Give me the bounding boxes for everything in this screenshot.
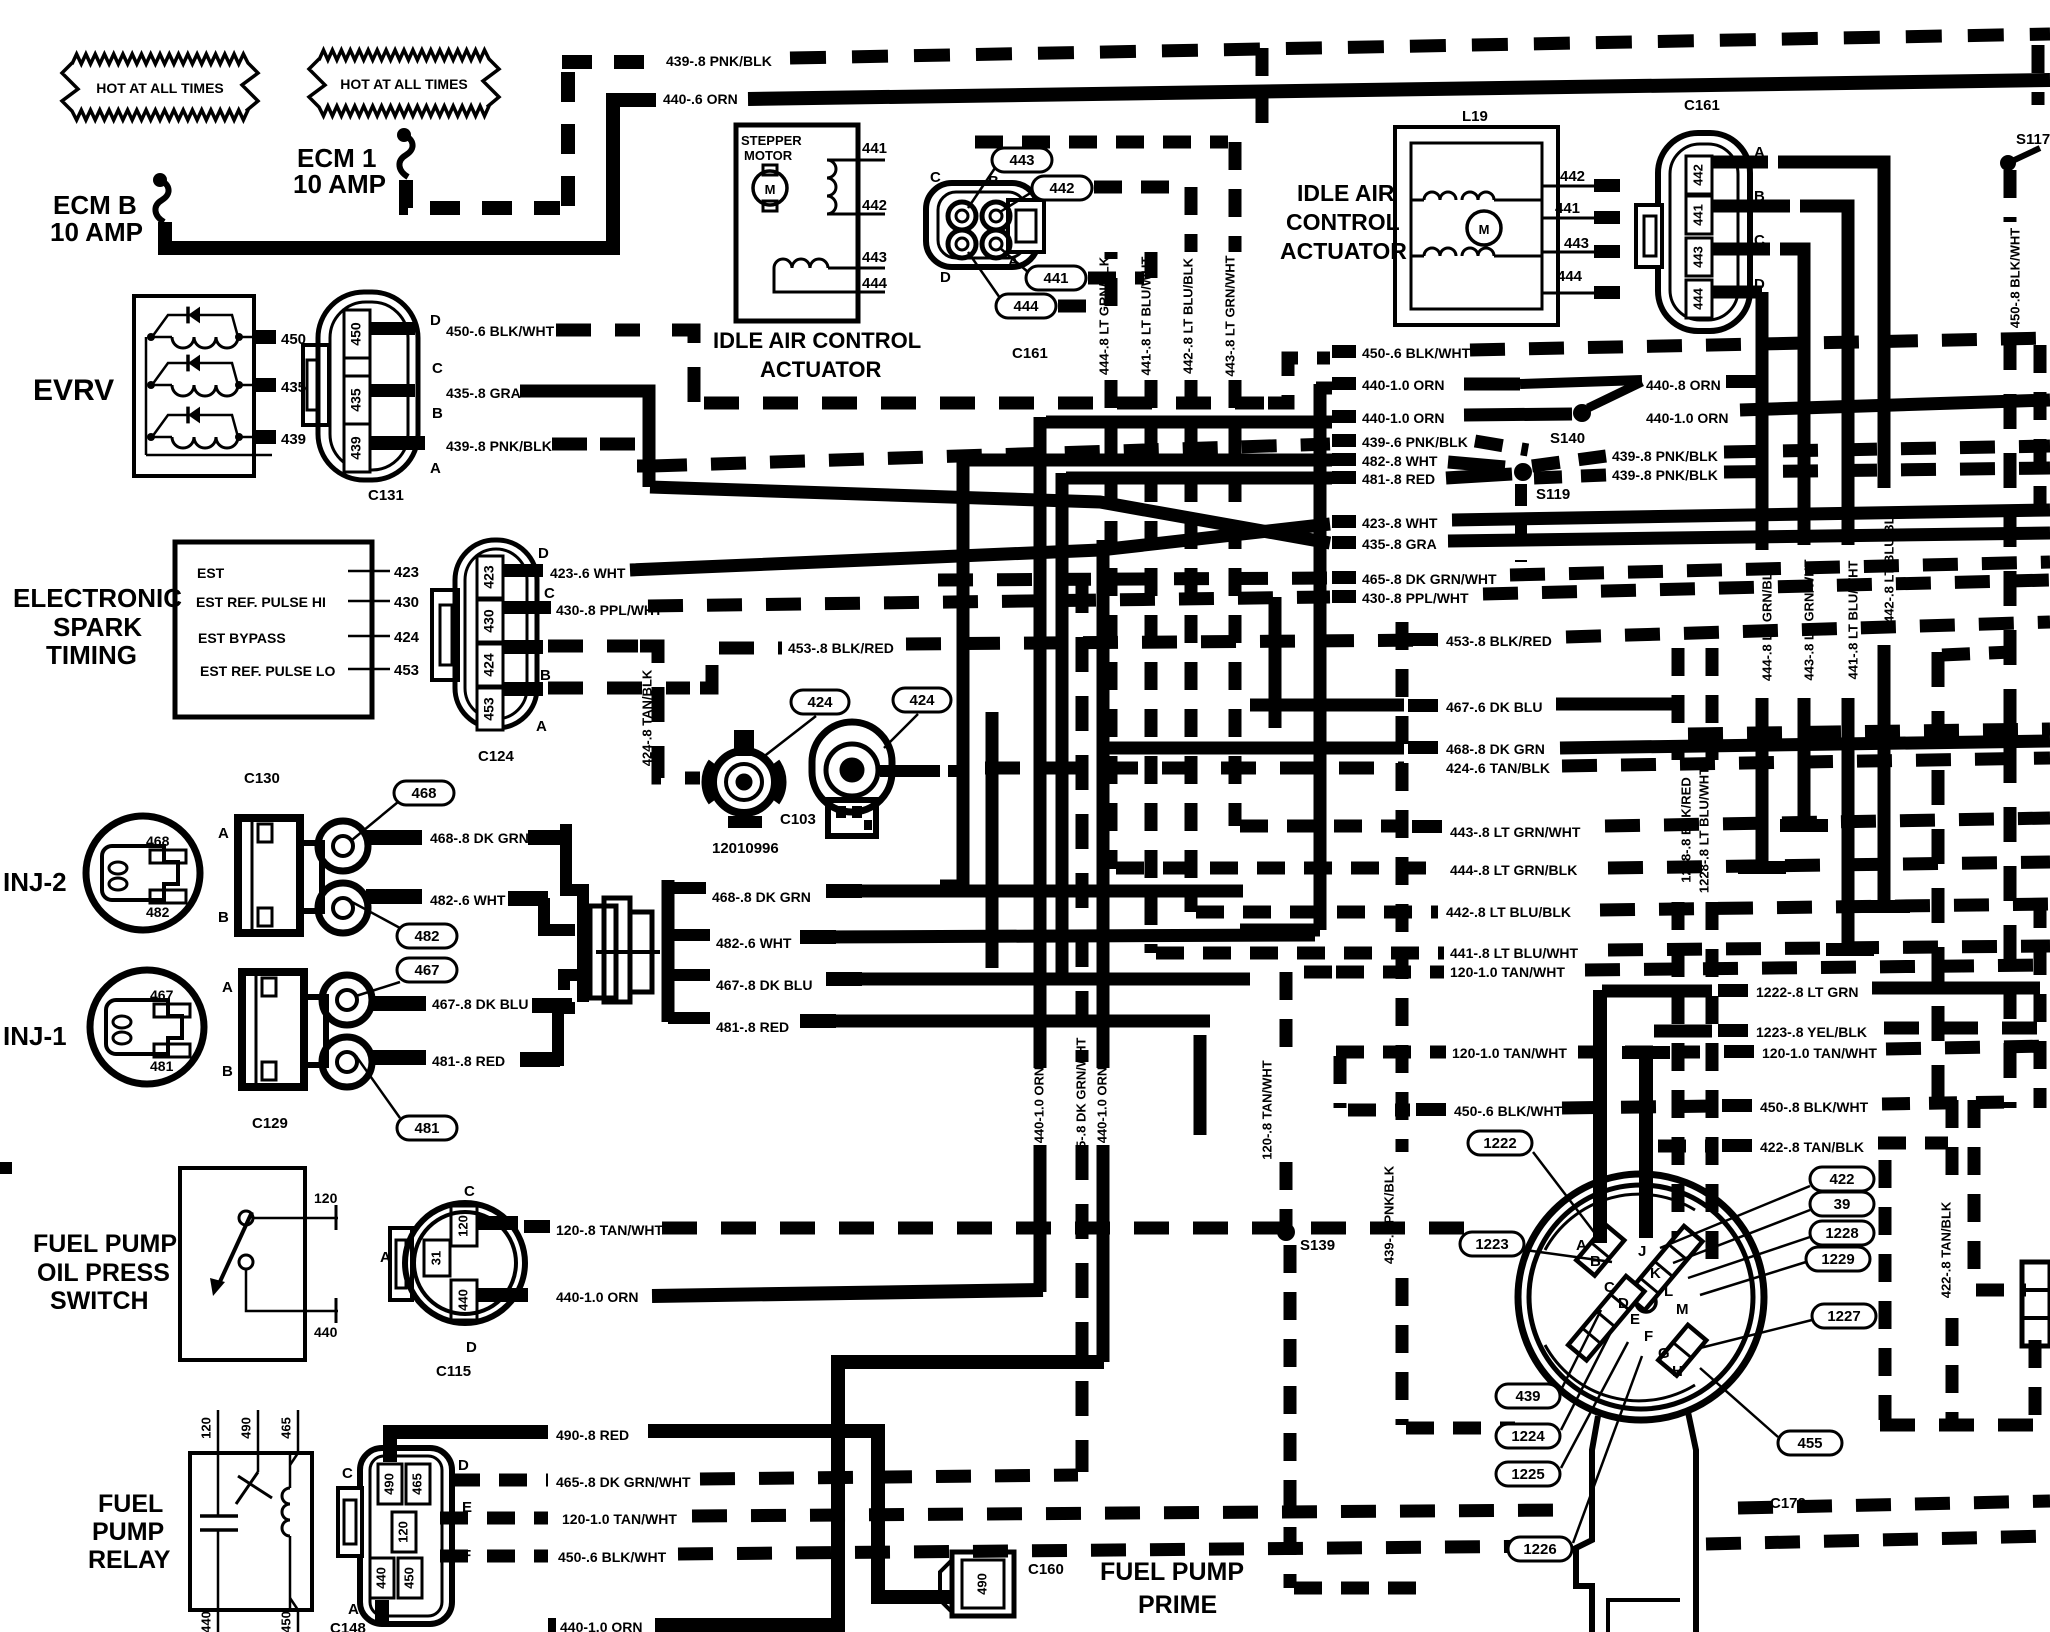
callout oval 468	[394, 781, 454, 805]
wire 422-.8 TAN/BLK vertical (dashed)	[1946, 1100, 1959, 1185]
relay pin 450	[297, 1610, 300, 1632]
svg-text:A: A	[430, 460, 441, 477]
svg-text:444-.8 LT GRN/BLK: 444-.8 LT GRN/BLK	[1759, 562, 1774, 681]
svg-text:D: D	[466, 1339, 477, 1356]
wire riser to top 439 run (dashed)	[1256, 48, 1269, 140]
svg-text:439-.8 PNK/BLK: 439-.8 PNK/BLK	[446, 438, 552, 454]
svg-text:1224: 1224	[1511, 1428, 1545, 1445]
svg-text:EST BYPASS: EST BYPASS	[198, 630, 286, 646]
svg-text:10 AMP: 10 AMP	[50, 217, 143, 247]
pin 424 EST	[348, 635, 390, 638]
svg-text:1223: 1223	[1475, 1236, 1508, 1253]
svg-text:442-.8 LT BLU/BLK: 442-.8 LT BLU/BLK	[1446, 904, 1571, 920]
wire 441-.8 LT BLU/WHT from C161R-B (solid vertical)	[1712, 200, 1790, 213]
svg-text:439-.8 PNK/BLK: 439-.8 PNK/BLK	[1612, 448, 1718, 464]
wire right side dashed near C172	[1879, 1160, 1892, 1420]
wire solid vertical into C172 pin J	[1639, 1052, 1653, 1238]
wire 120-.8 TAN/WHT from C115	[478, 1216, 518, 1230]
splice S119	[1514, 463, 1532, 481]
svg-text:482-.8 WHT: 482-.8 WHT	[1362, 453, 1438, 469]
svg-text:468-.8 DK GRN: 468-.8 DK GRN	[430, 830, 529, 846]
svg-text:430-.8 PPL/WHT: 430-.8 PPL/WHT	[1362, 590, 1469, 606]
callout oval 482	[397, 924, 457, 948]
svg-text:467-.8 DK BLU: 467-.8 DK BLU	[716, 977, 812, 993]
svg-text:RELAY: RELAY	[88, 1546, 171, 1574]
svg-text:468-.8 DK GRN: 468-.8 DK GRN	[1446, 741, 1545, 757]
svg-text:1228-.8 LT BLU/WHT: 1228-.8 LT BLU/WHT	[1696, 767, 1711, 893]
svg-text:443: 443	[1690, 246, 1705, 268]
connector C172 distributor	[1518, 1174, 1764, 1420]
svg-text:422-.8 TAN/BLK: 422-.8 TAN/BLK	[1760, 1139, 1864, 1155]
svg-text:450: 450	[278, 1611, 293, 1632]
wire 439-.8 PNK/BLK from C131-A (dashed)	[370, 436, 425, 450]
wire 450-.6 BLK/WHT from C131-D (dashed)	[370, 322, 415, 335]
svg-text:HOT AT ALL TIMES: HOT AT ALL TIMES	[96, 80, 224, 96]
wire 467-.8 DK BLU label	[370, 996, 426, 1011]
svg-text:444-.8 LT GRN/BLK: 444-.8 LT GRN/BLK	[1450, 862, 1577, 878]
svg-text:L: L	[1664, 1283, 1673, 1300]
svg-text:424: 424	[394, 629, 420, 646]
svg-text:453: 453	[394, 662, 419, 679]
svg-text:482-.6 WHT: 482-.6 WHT	[716, 935, 792, 951]
wire 482-.8 WHT (center row)	[1332, 453, 1356, 466]
svg-text:465-.8 DK GRN/WHT: 465-.8 DK GRN/WHT	[556, 1474, 691, 1490]
callout oval 443 (C161)	[992, 148, 1052, 172]
pin 453 EST	[348, 668, 390, 671]
svg-text:PUMP: PUMP	[92, 1518, 164, 1546]
pin 430 EST	[348, 600, 390, 603]
svg-text:B: B	[432, 405, 443, 422]
callout oval 442 (C161)	[1032, 176, 1092, 200]
wire EVRV internal bus	[145, 337, 148, 455]
wire 440-1.0 ORN (bottom)	[375, 1600, 389, 1626]
svg-text:PRIME: PRIME	[1138, 1591, 1217, 1619]
relay pin 465	[297, 1410, 300, 1453]
svg-text:C: C	[432, 360, 443, 377]
svg-text:D: D	[538, 545, 549, 562]
wire ECM 1 to 439 PNK/BLK (dashed)	[406, 180, 560, 208]
wire dashed frame lower-left of C172	[1284, 1245, 1297, 1588]
svg-text:C129: C129	[252, 1115, 288, 1132]
wire 450-.6 BLK/WHT (center row)	[1332, 345, 1356, 358]
connector C160	[940, 1560, 952, 1612]
svg-text:120: 120	[198, 1417, 213, 1439]
component IDLE AIR CONTROL ACTUATOR (stepper motor)	[736, 125, 858, 321]
svg-text:490-.8 RED: 490-.8 RED	[556, 1427, 629, 1443]
svg-text:435-.8 GRA: 435-.8 GRA	[1362, 536, 1437, 552]
svg-text:120-1.0 TAN/WHT: 120-1.0 TAN/WHT	[562, 1511, 677, 1527]
svg-text:B: B	[222, 1063, 233, 1080]
wire 435-.8 GRA (center row)	[1332, 536, 1356, 549]
svg-text:424-.6 TAN/BLK: 424-.6 TAN/BLK	[1446, 760, 1550, 776]
svg-text:465-.8 DK GRN/WHT: 465-.8 DK GRN/WHT	[1073, 1037, 1088, 1162]
wire 450-.8 BLK/WHT from S117 (dashed vertical)	[2004, 170, 2017, 222]
svg-text:423: 423	[481, 565, 497, 589]
svg-text:C160: C160	[1028, 1561, 1064, 1578]
svg-text:440-1.0 ORN: 440-1.0 ORN	[1362, 410, 1444, 426]
svg-text:B: B	[540, 667, 551, 684]
svg-text:120: 120	[395, 1521, 410, 1543]
svg-text:490: 490	[238, 1417, 253, 1439]
svg-text:435: 435	[348, 388, 364, 412]
wire C103 output stub	[880, 765, 940, 777]
switch contacts	[239, 1211, 253, 1225]
svg-text:440-1.0 ORN: 440-1.0 ORN	[1646, 410, 1728, 426]
relay switch blade	[257, 1453, 260, 1472]
svg-text:444: 444	[1690, 287, 1705, 309]
svg-text:444: 444	[862, 275, 888, 292]
motor M (L19)	[1467, 211, 1501, 245]
svg-text:440: 440	[198, 1611, 213, 1632]
svg-text:F: F	[1644, 1328, 1653, 1345]
svg-text:CONTROL: CONTROL	[1286, 209, 1400, 235]
svg-text:481: 481	[150, 1058, 174, 1074]
svg-text:1228: 1228	[1825, 1225, 1858, 1242]
C172 pin strip A-B	[1576, 1225, 1624, 1276]
wire 468 to inline connector	[560, 830, 583, 930]
pin 450 EVRV	[252, 330, 276, 344]
svg-text:SPARK: SPARK	[53, 612, 142, 642]
svg-text:422: 422	[1829, 1171, 1854, 1188]
svg-text:C115: C115	[436, 1363, 471, 1380]
svg-text:C130: C130	[244, 770, 280, 787]
svg-text:ELECTRONIC: ELECTRONIC	[13, 583, 182, 613]
svg-text:455: 455	[1797, 1435, 1822, 1452]
svg-text:A: A	[218, 825, 229, 842]
wire 482-.6 WHT label	[366, 889, 422, 904]
svg-text:481-.8 RED: 481-.8 RED	[716, 1019, 789, 1035]
wire 465-.8 DK GRN/WHT (bottom)	[452, 1474, 548, 1487]
svg-text:450-.6 BLK/WHT: 450-.6 BLK/WHT	[558, 1549, 667, 1565]
wire 120-1.0 TAN/WHT (row y1052 right label)	[1724, 1045, 1754, 1058]
svg-text:120-1.0 TAN/WHT: 120-1.0 TAN/WHT	[1762, 1045, 1877, 1061]
C172 pin strip G-H	[1658, 1325, 1706, 1376]
svg-text:C: C	[930, 169, 941, 186]
svg-text:A: A	[348, 1601, 359, 1618]
svg-text:39: 39	[1834, 1196, 1851, 1213]
callout oval 1226	[1508, 1537, 1572, 1561]
svg-text:IDLE AIR CONTROL: IDLE AIR CONTROL	[713, 328, 921, 353]
inline connector output bus	[662, 880, 675, 1022]
svg-text:EVRV: EVRV	[33, 374, 114, 407]
wire 468-.8 DK GRN label	[366, 830, 422, 845]
svg-text:A: A	[222, 979, 233, 996]
wire 120-.8 TAN/WHT long run (dashed)	[662, 1222, 1480, 1235]
svg-text:444-.8 LT GRN/BLK: 444-.8 LT GRN/BLK	[1096, 256, 1111, 375]
wire 481 feeder vertical	[1056, 473, 1069, 980]
wire 443-.8 LT GRN/WHT (center row)	[1412, 820, 1442, 833]
sensor 12010996 pickup coil	[762, 716, 816, 758]
coil 441/442 (stepper)	[827, 160, 836, 214]
wire 440-1.0 ORN (center row upper)	[1332, 377, 1356, 390]
connector C148	[360, 1448, 452, 1624]
callout oval 481	[397, 1116, 457, 1140]
svg-text:424: 424	[909, 692, 935, 709]
svg-text:423-.6 WHT: 423-.6 WHT	[550, 565, 626, 581]
svg-text:441: 441	[862, 140, 887, 157]
splice S139	[1277, 1223, 1295, 1241]
svg-text:442: 442	[1049, 180, 1074, 197]
svg-text:422-.8 TAN/BLK: 422-.8 TAN/BLK	[1938, 1201, 1953, 1298]
svg-text:H: H	[1672, 1363, 1683, 1380]
svg-text:120-1.0 TAN/WHT: 120-1.0 TAN/WHT	[1452, 1045, 1567, 1061]
wire 440 riser x1320	[1314, 384, 1327, 930]
wire 423-.8 WHT (center row)	[1332, 515, 1356, 528]
svg-text:450-.8 BLK/WHT: 450-.8 BLK/WHT	[2007, 228, 2022, 328]
svg-text:1227: 1227	[1827, 1308, 1860, 1325]
svg-text:444: 444	[1013, 298, 1039, 315]
svg-text:444: 444	[1557, 268, 1583, 285]
svg-text:E: E	[1630, 1311, 1640, 1328]
connector C161 (engine side)	[926, 183, 1038, 267]
pin 439 EVRV	[252, 430, 276, 444]
callout oval 422	[1810, 1167, 1874, 1191]
callout oval 444 (C161)	[996, 294, 1056, 318]
wire 450-.6 BLK/WHT (row y1110 left label)	[1416, 1103, 1446, 1116]
svg-text:441-.8 LT BLU/WHT: 441-.8 LT BLU/WHT	[1450, 945, 1579, 961]
wire vertical bus solid A (482 feeder)	[957, 455, 970, 886]
svg-text:450-.6 BLK/WHT: 450-.6 BLK/WHT	[1362, 345, 1471, 361]
svg-text:442-.8 LT BLU/BLK: 442-.8 LT BLU/BLK	[1180, 257, 1195, 374]
wire 435-.8 GRA from C131-B (solid)	[370, 384, 415, 397]
wire 439-.8 PNK/BLK lower (right)	[1534, 475, 1606, 478]
callout oval 1228	[1810, 1221, 1874, 1245]
wire 423-.6 WHT from C124-D (solid)	[503, 564, 543, 577]
svg-text:490: 490	[381, 1473, 396, 1495]
svg-text:439-.6 PNK/BLK: 439-.6 PNK/BLK	[1362, 434, 1468, 450]
wire 120-.8 TAN/WHT vertical (dashed)	[1286, 966, 1332, 979]
svg-text:FUEL PUMP: FUEL PUMP	[33, 1230, 177, 1258]
svg-text:481: 481	[414, 1120, 439, 1137]
callout oval 39	[1810, 1192, 1874, 1216]
svg-text:D: D	[940, 269, 951, 286]
svg-text:C124: C124	[478, 748, 515, 765]
wire 120-1.0 TAN/WHT (bottom)	[440, 1512, 548, 1525]
svg-text:M: M	[765, 182, 776, 197]
wire 440-1.0 ORN from C115	[478, 1288, 528, 1302]
wire 481-.8 RED (center row)	[1332, 471, 1356, 484]
wire vertical bus solid B	[986, 712, 999, 968]
svg-text:439: 439	[281, 431, 306, 448]
wire 422-.8 TAN/BLK (row y1146)	[1658, 1140, 1716, 1153]
svg-text:430: 430	[481, 609, 497, 633]
wire solid vertical into C172 pin A	[1593, 990, 1607, 1243]
svg-text:442: 442	[1690, 164, 1705, 186]
svg-text:1225: 1225	[1511, 1466, 1544, 1483]
connector C131	[318, 292, 418, 480]
svg-text:120: 120	[455, 1215, 470, 1237]
svg-text:435-.8 GRA: 435-.8 GRA	[446, 385, 521, 401]
svg-text:440-1.0 ORN: 440-1.0 ORN	[1094, 1067, 1109, 1144]
svg-text:467-.8 DK BLU: 467-.8 DK BLU	[432, 996, 528, 1012]
svg-text:TIMING: TIMING	[46, 640, 137, 670]
svg-text:450: 450	[401, 1567, 416, 1589]
svg-text:C: C	[1604, 1279, 1615, 1296]
svg-text:INJ-1: INJ-1	[3, 1021, 67, 1051]
svg-text:443-.8 LT GRN/WHT: 443-.8 LT GRN/WHT	[1801, 559, 1816, 680]
svg-text:MOTOR: MOTOR	[744, 148, 793, 163]
svg-text:B: B	[218, 909, 229, 926]
svg-text:482: 482	[146, 904, 170, 920]
svg-text:1223-.8 YEL/BLK: 1223-.8 YEL/BLK	[1756, 1024, 1867, 1040]
svg-text:467: 467	[150, 987, 174, 1003]
svg-text:442: 442	[862, 197, 887, 214]
svg-text:443: 443	[862, 249, 887, 266]
svg-text:440-1.0 ORN: 440-1.0 ORN	[560, 1619, 642, 1632]
wire 482 to inline connector	[544, 898, 575, 930]
wire 453-.8 BLK/RED (center row)	[1408, 633, 1438, 646]
svg-text:A: A	[1576, 1237, 1587, 1254]
svg-text:12010996: 12010996	[712, 840, 779, 857]
relay capacitor	[217, 1453, 220, 1516]
svg-text:439-.8 PNK/BLK: 439-.8 PNK/BLK	[666, 53, 772, 69]
wire 450-.6 BLK/WHT (bottom)	[440, 1550, 548, 1563]
svg-text:482: 482	[414, 928, 439, 945]
wire 453-.8 BLK/RED from C124-A (dashed)	[503, 682, 543, 696]
wire 430-.8 PPL/WHT (center row)	[1332, 590, 1356, 603]
wire 490-.8 RED	[390, 1432, 548, 1462]
svg-text:D: D	[430, 312, 441, 329]
svg-text:468: 468	[411, 785, 436, 802]
connector C124	[455, 540, 537, 728]
svg-text:481-.8 RED: 481-.8 RED	[432, 1053, 505, 1069]
svg-text:430: 430	[394, 594, 419, 611]
wire right mesh vertical (dashed) x1938	[1932, 652, 1945, 1100]
svg-text:443-.8 LT GRN/WHT: 443-.8 LT GRN/WHT	[1222, 255, 1237, 376]
svg-text:120: 120	[314, 1190, 338, 1206]
svg-text:C131: C131	[368, 487, 404, 504]
svg-text:450-.6 BLK/WHT: 450-.6 BLK/WHT	[1454, 1103, 1563, 1119]
wire 465-.8 DK GRN/WHT vertical (dashed)	[1076, 578, 1089, 1062]
svg-text:10 AMP: 10 AMP	[293, 169, 386, 199]
inline connector (injector harness)	[577, 902, 589, 1002]
svg-text:G: G	[1658, 1345, 1670, 1362]
svg-text:S117: S117	[2016, 131, 2050, 148]
callout oval 1225	[1496, 1462, 1560, 1486]
svg-text:STEPPER: STEPPER	[741, 133, 802, 148]
callout oval 424 left	[791, 690, 849, 714]
wire 439-.6 PNK/BLK (center row)	[1332, 434, 1356, 447]
wire left edge tick	[0, 1162, 12, 1174]
svg-text:440: 440	[314, 1324, 338, 1340]
svg-text:J: J	[1638, 1243, 1646, 1260]
svg-text:467: 467	[414, 962, 439, 979]
svg-text:120-.8 TAN/WHT: 120-.8 TAN/WHT	[1259, 1060, 1274, 1159]
wire right mesh vertical (dashed) x2040	[2032, 45, 2045, 105]
wire ECM B to 440 ORN (solid)	[165, 100, 656, 248]
callout oval 1227	[1812, 1304, 1876, 1328]
callout oval 467	[397, 958, 457, 982]
wire 440-1.0 ORN vertical (right)	[1097, 540, 1110, 1068]
wire 444 from oval to vertical (dashed)	[1058, 300, 1104, 313]
wire 439-.8 PNK/BLK upper (right)	[1532, 456, 1606, 466]
callout oval 439	[1496, 1384, 1560, 1408]
coil upper (L19)	[1424, 192, 1456, 200]
wire 440-1.0 ORN vertical (left)	[1034, 417, 1047, 1068]
pin 423 EST	[348, 570, 390, 573]
relay pin 120	[217, 1410, 220, 1453]
svg-text:450: 450	[348, 322, 364, 346]
svg-text:S139: S139	[1300, 1237, 1335, 1254]
svg-text:440-1.0 ORN: 440-1.0 ORN	[556, 1289, 638, 1305]
svg-text:440: 440	[455, 1289, 470, 1311]
svg-text:481-.8 RED: 481-.8 RED	[1362, 471, 1435, 487]
junction T feet on right verticals	[1780, 819, 1828, 832]
svg-text:D: D	[458, 1457, 469, 1474]
sensor C103 throttle position sensor	[884, 714, 918, 748]
wire 467 to inline connector	[564, 975, 583, 990]
svg-text:FUEL: FUEL	[98, 1490, 163, 1518]
C172 flask body	[1576, 1416, 1598, 1632]
svg-text:1226: 1226	[1523, 1541, 1556, 1558]
svg-text:465: 465	[409, 1473, 424, 1495]
callout oval 424 right	[893, 688, 951, 712]
svg-text:465: 465	[278, 1417, 293, 1439]
svg-text:ECM B: ECM B	[53, 190, 137, 220]
wire 444-.8 LT GRN/BLK from C161R-D (solid vertical)	[1712, 286, 1762, 299]
wire right mesh dashed row y732	[1688, 729, 2050, 734]
wire 1228-.8 BLK/RED vertical (dashed)	[1672, 648, 1685, 760]
callout oval 441 (C161)	[1026, 266, 1086, 290]
callout oval 1222	[1468, 1131, 1532, 1155]
svg-text:S140: S140	[1550, 430, 1585, 447]
motor M (stepper)	[753, 171, 787, 205]
svg-text:HOT AT ALL TIMES: HOT AT ALL TIMES	[340, 76, 468, 92]
wire 1228-.8 LT BLU/WHT vertical (dashed)	[1706, 648, 1719, 760]
svg-text:31: 31	[428, 1251, 443, 1265]
svg-text:L19: L19	[1462, 108, 1488, 125]
power callout HOT AT ALL TIMES (left)	[62, 54, 258, 120]
svg-text:453: 453	[481, 697, 497, 721]
svg-text:439: 439	[1515, 1388, 1540, 1405]
svg-text:441: 441	[1690, 204, 1705, 226]
svg-text:441: 441	[1043, 270, 1068, 287]
wire 481 to inline connector	[552, 1008, 575, 1060]
connector edge stub right	[2022, 1262, 2050, 1346]
wire 439-.8 PNK/BLK long vertical (dashed)	[1396, 622, 1409, 1152]
wire 468-.8 DK GRN (center row)	[1408, 741, 1438, 754]
wire 442-.8 LT BLU/BLK from C161R-A (solid vertical)	[1712, 156, 1768, 169]
svg-text:424: 424	[807, 694, 833, 711]
svg-text:468-.8 DK GRN: 468-.8 DK GRN	[712, 889, 811, 905]
wire 430-.8 PPL/WHT from C124-C (dashed)	[503, 601, 551, 614]
svg-text:440-1.0 ORN: 440-1.0 ORN	[1031, 1067, 1046, 1144]
svg-text:IDLE AIR: IDLE AIR	[1297, 180, 1395, 206]
svg-text:M: M	[1676, 1301, 1689, 1318]
svg-text:450-.8 BLK/WHT: 450-.8 BLK/WHT	[1760, 1099, 1869, 1115]
connector C115	[405, 1203, 525, 1323]
svg-text:440-.8 ORN: 440-.8 ORN	[1646, 377, 1721, 393]
callout oval 455	[1778, 1431, 1842, 1455]
svg-text:A: A	[380, 1249, 391, 1266]
wire 441 from oval to vertical (dashed)	[1088, 272, 1144, 285]
wire 443 from oval to vertical (dashed)	[975, 136, 1228, 149]
callout oval 1229	[1806, 1247, 1870, 1271]
svg-text:C161: C161	[1684, 97, 1720, 114]
svg-text:S119: S119	[1536, 486, 1570, 503]
svg-text:453-.8 BLK/RED: 453-.8 BLK/RED	[1446, 633, 1552, 649]
svg-text:FUEL PUMP: FUEL PUMP	[1100, 1558, 1244, 1586]
wire 424-.8 TAN/BLK from C124-B (dashed)	[503, 640, 543, 654]
relay pin 440	[217, 1610, 220, 1632]
svg-text:439-.8 PNK/BLK: 439-.8 PNK/BLK	[1381, 1165, 1396, 1264]
svg-text:450-.6 BLK/WHT: 450-.6 BLK/WHT	[446, 323, 555, 339]
C172 pin strip C-D-E-F	[1568, 1276, 1644, 1360]
svg-text:423: 423	[394, 564, 419, 581]
power callout HOT AT ALL TIMES (right)	[309, 50, 499, 116]
wire 465-.8 DK GRN/WHT (center row)	[1332, 571, 1356, 584]
relay pin 490	[257, 1410, 260, 1453]
